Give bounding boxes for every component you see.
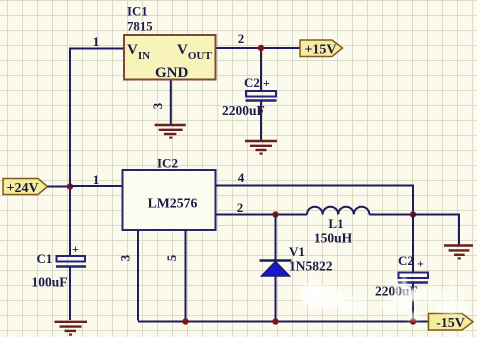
svg-text:C1: C1	[37, 251, 53, 266]
svg-text:C2: C2	[244, 75, 260, 90]
diode V1 wire lower	[275, 276, 277, 322]
svg-text:100uF: 100uF	[32, 275, 68, 290]
wire +24V flag to junction	[48, 186, 71, 188]
junction node diode/rail	[272, 318, 278, 324]
wire IC2 pin 5 down to rail	[185, 230, 187, 322]
svg-text:2: 2	[237, 200, 244, 215]
svg-text:3: 3	[150, 102, 165, 109]
svg-text:3: 3	[118, 254, 133, 261]
capacitor C2 lower plates	[398, 273, 428, 283]
wire IC2 pin 4 to right bus	[216, 186, 414, 216]
ground for C2 upper	[245, 141, 277, 154]
wire IC2 pin 3 down to rail	[137, 230, 139, 321]
power flag -15V	[429, 314, 474, 331]
wire IC1 pin 1 horizontal	[70, 48, 124, 50]
svg-text:7815: 7815	[127, 20, 153, 34]
svg-text:4: 4	[238, 170, 245, 185]
svg-text:+: +	[417, 257, 424, 271]
diode V1 wire upper	[275, 215, 277, 262]
svg-text:1: 1	[93, 34, 100, 49]
svg-text:2: 2	[238, 31, 245, 46]
capacitor C1 plates	[56, 256, 86, 267]
svg-text:+: +	[263, 76, 270, 90]
ground right	[444, 246, 473, 259]
wire bottom rail	[138, 321, 429, 323]
svg-text:2200uF: 2200uF	[222, 103, 265, 118]
svg-text:+24V: +24V	[7, 181, 39, 196]
ground for C1	[55, 322, 88, 335]
wire C1 to ground	[69, 267, 71, 321]
watermark	[301, 279, 470, 320]
ground for IC1	[155, 125, 186, 138]
wire IC2 pin 2 to inductor	[216, 214, 308, 216]
regulator IC1 7815 body	[124, 35, 216, 80]
junction node IC1 output	[258, 45, 264, 51]
wire left vertical bus (+24V node)	[69, 48, 71, 257]
wire IC1 pin 3 to ground	[170, 80, 172, 125]
svg-text:+: +	[72, 242, 79, 256]
junction node pin5/rail	[182, 318, 188, 324]
power flag +15V	[300, 40, 343, 58]
svg-text:IC2: IC2	[157, 156, 178, 171]
junction node switch (diode)	[272, 211, 278, 217]
junction node C2/rail/-15V	[410, 318, 416, 324]
svg-text:150uH: 150uH	[314, 231, 353, 246]
svg-text:GND: GND	[155, 65, 189, 81]
inductor L1 coil	[307, 207, 369, 215]
wire junction to IC2 pin 1	[70, 185, 123, 187]
svg-text:V1: V1	[289, 244, 305, 259]
wire output node to right ground	[413, 215, 459, 246]
svg-text:LM2576: LM2576	[148, 196, 198, 211]
svg-text:1N5822: 1N5822	[289, 259, 333, 274]
svg-text:-15V: -15V	[436, 316, 465, 331]
wire output node down to C2 lower	[412, 215, 414, 273]
junction node output	[410, 211, 416, 217]
wire C2 upper to ground	[260, 100, 262, 140]
diode V1 triangle	[262, 262, 290, 277]
diode V1 cathode bar	[260, 259, 292, 262]
svg-text:+15V: +15V	[304, 43, 336, 58]
regulator IC2 LM2576 body	[123, 170, 216, 230]
wire inductor to output node	[369, 214, 413, 216]
power flag +24V	[3, 179, 48, 197]
svg-text:5: 5	[164, 254, 179, 261]
capacitor C2 upper plates	[246, 91, 277, 101]
svg-text:IC1: IC1	[127, 5, 148, 19]
wire IC1 pin 2 to +15V flag	[216, 47, 301, 49]
junction node +24V	[67, 183, 73, 189]
svg-text:1: 1	[93, 172, 100, 187]
svg-text:L1: L1	[328, 216, 343, 231]
wire C2 lower to rail	[412, 283, 414, 322]
svg-text:C2: C2	[398, 253, 414, 268]
wire C2 upper branch from output node	[260, 48, 262, 91]
